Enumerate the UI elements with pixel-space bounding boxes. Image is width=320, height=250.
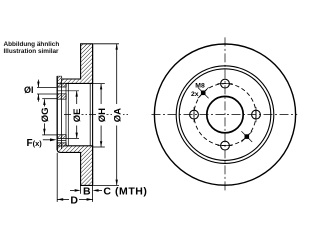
- svg-text:D: D: [70, 195, 78, 207]
- svg-text:C (MTH): C (MTH): [103, 186, 147, 198]
- ext line OA bottom: [93, 184, 119, 186]
- flange right face pair: [67, 84, 69, 146]
- recess silhouette bottom: [57, 137, 80, 139]
- shoulder ring outer: [176, 66, 274, 164]
- dim OG: [42, 99, 57, 135]
- locating stud marker upper-left: [198, 87, 209, 98]
- note: Abbildung ähnlich / Illustration similar: [4, 41, 60, 56]
- svg-text:ØH: ØH: [97, 108, 108, 122]
- rim inner vertical: [61, 79, 63, 149]
- locating stud marker lower-right: [241, 131, 252, 142]
- outer circle: [154, 44, 295, 185]
- section: friction ring bottom (hatched L with flange rim): [57, 146, 92, 186]
- outboard inner line: [89, 83, 91, 145]
- ext line OH top: [66, 83, 105, 85]
- center bore: [207, 96, 243, 132]
- centerline horizontal: [152, 114, 298, 116]
- bolt hole top: [218, 79, 233, 88]
- bolt hole bottom: [218, 141, 233, 150]
- outboard face line: [92, 44, 94, 186]
- dim OE: [76, 91, 78, 139]
- svg-text:F(x): F(x): [27, 138, 43, 149]
- dim D: [57, 153, 92, 202]
- svg-text:ØE: ØE: [72, 108, 83, 122]
- svg-text:ØI: ØI: [24, 85, 34, 95]
- svg-text:2x: 2x: [191, 91, 199, 98]
- rim hatch: [57, 76, 61, 79]
- centerline vertical: [224, 37, 226, 191]
- dim B ext lines: [70, 185, 102, 202]
- svg-text:B: B: [83, 186, 91, 198]
- svg-text:M8: M8: [195, 83, 205, 90]
- bolt hole right: [252, 107, 261, 122]
- flange hatch bottom C: [57, 135, 66, 139]
- ext line OA top: [93, 43, 119, 45]
- bolt hole left: [190, 107, 199, 122]
- mounting face line: [56, 76, 58, 150]
- svg-text:ØA: ØA: [112, 108, 123, 122]
- ext line OH bottom: [93, 146, 105, 148]
- flange hatch bottom D: [57, 143, 66, 146]
- dim OI: [37, 80, 56, 102]
- flange hatch top B: [57, 94, 66, 99]
- centerline left view: [64, 114, 128, 116]
- dim OH: [100, 84, 102, 147]
- flange hatch top A: [57, 83, 66, 87]
- dim OA: [116, 44, 118, 186]
- bolt hole silhouette bottom gap: [57, 140, 66, 142]
- recess silhouette top: [57, 90, 80, 92]
- section: friction ring top (hatched L with flange rim): [57, 44, 92, 84]
- bolt circle (dashed): [194, 84, 256, 146]
- shoulder ring inner: [179, 69, 271, 161]
- svg-text:ØG: ØG: [40, 107, 51, 122]
